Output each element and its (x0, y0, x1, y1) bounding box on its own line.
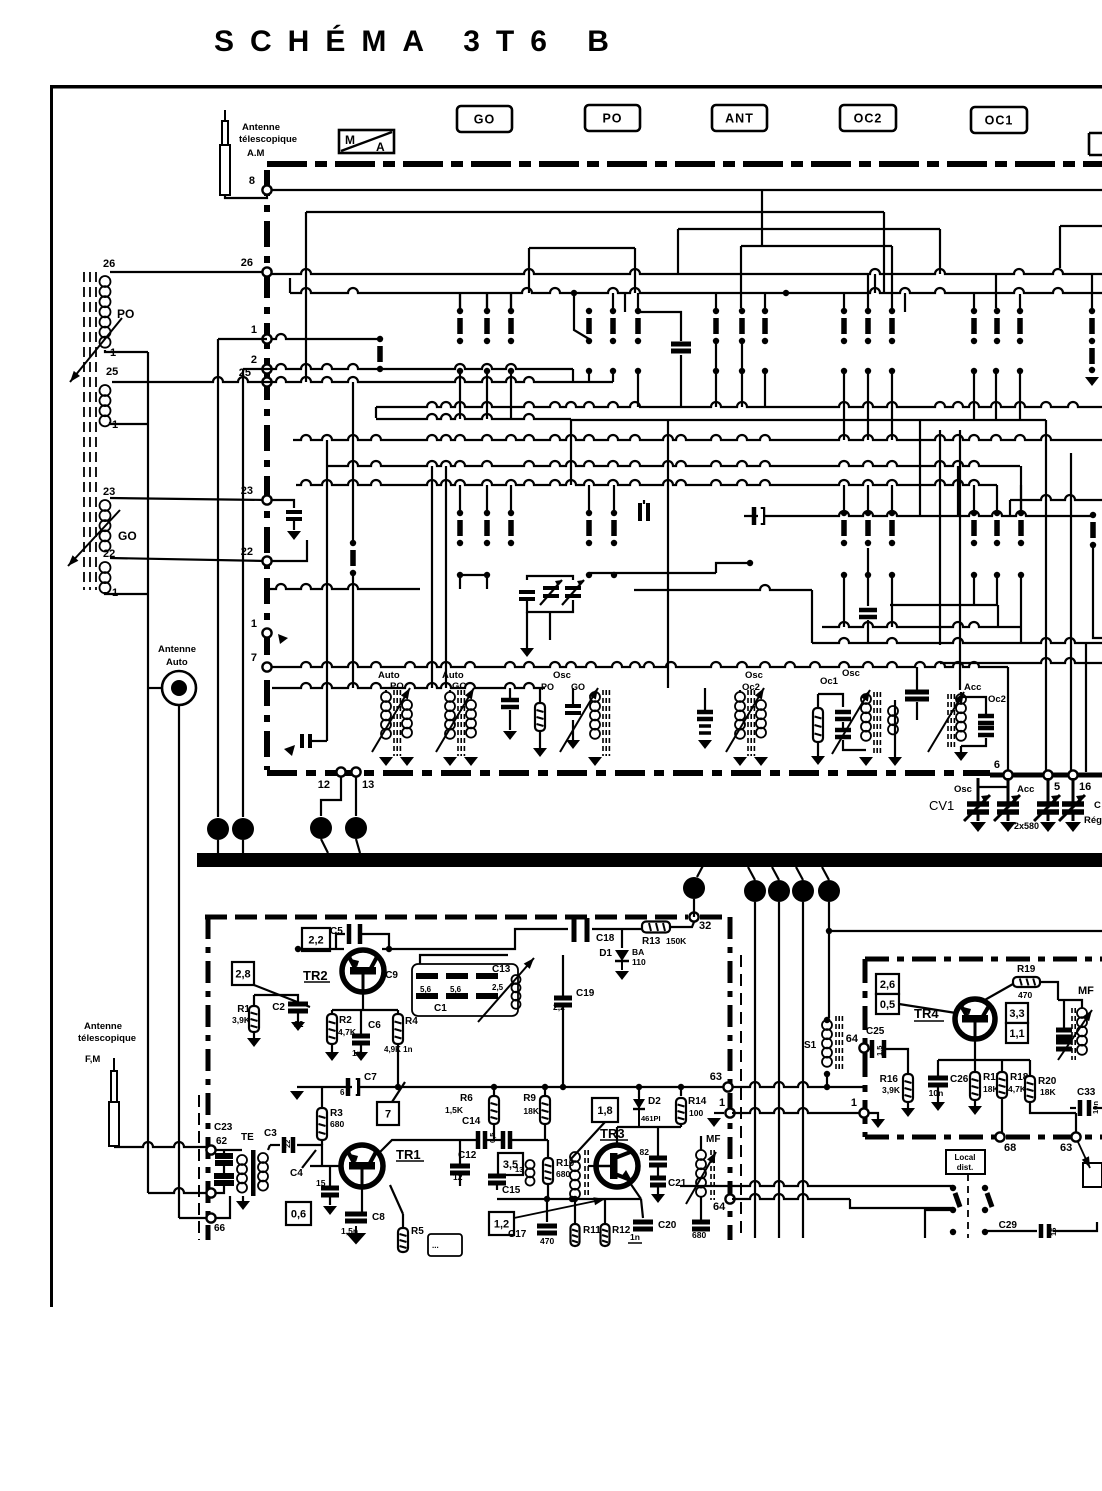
capacitor x868 (859, 610, 877, 617)
svg-text:télescopique: télescopique (239, 134, 297, 145)
wire 25 coil to row (112, 381, 165, 383)
switch contact S-o (994, 308, 1000, 344)
svg-text:Oc1: Oc1 (820, 676, 839, 687)
wire C14 mid (487, 1139, 503, 1141)
wire C2 btm (297, 1011, 299, 1022)
wire box7 pointer (392, 1082, 405, 1102)
inductor FM osc coil (512, 975, 521, 1009)
arrow FM osc coil (478, 958, 534, 1022)
wire below e (693, 908, 695, 917)
wire x353 below contact (352, 576, 354, 688)
wire TE sec to C3 (268, 1145, 270, 1150)
wire osc res bottom (539, 731, 541, 748)
ground arrow left bottom (284, 745, 295, 756)
wire GO top to node 23 (110, 498, 267, 500)
inductor MF fm (696, 1150, 706, 1197)
switch contact S-r extra dash (1089, 348, 1095, 364)
inductor Auto GO coil primary (445, 692, 455, 739)
wire cap705 top (704, 688, 706, 712)
ground Auto PO coil b (400, 757, 414, 766)
resistor R14 (676, 1098, 686, 1124)
node 5 cv (1043, 770, 1052, 779)
wire v x884 212-293 (883, 212, 885, 293)
junction y293 x786 (783, 290, 789, 296)
contact dot L 1232 (950, 1229, 956, 1235)
dot S-r bottom (1089, 367, 1095, 373)
wire PO top to node 26 (110, 271, 267, 273)
svg-text:C33: C33 (1077, 1087, 1096, 1098)
wire row y663 (940, 658, 1102, 663)
frame top border (50, 85, 1102, 89)
connector g (768, 880, 790, 902)
wire cap868 btm stem (867, 620, 869, 643)
ground Osc OC2 coil b (754, 757, 768, 766)
wire node2 row (243, 364, 573, 369)
dash-dot vertical switch border (264, 170, 270, 770)
wire matrix v x306 (305, 293, 307, 382)
wire v x812 590-643 (811, 590, 813, 643)
wire pole2 stem x614 (613, 573, 615, 578)
svg-text:PO: PO (602, 112, 622, 126)
trimmer cap osc 1 (540, 580, 562, 605)
wire T stem x892 (891, 485, 893, 510)
svg-text:i: i (828, 887, 831, 898)
svg-text:18K: 18K (523, 1106, 539, 1116)
inductor Osc OC2 coil secondary (756, 700, 766, 738)
wire C15 link (496, 1183, 498, 1190)
wire cap917 btm (916, 702, 918, 720)
junction R11 (572, 1196, 578, 1202)
capacitor C3 (284, 1137, 293, 1153)
svg-text:Auto: Auto (166, 657, 188, 668)
wire stem 765 (764, 294, 766, 308)
Local dist box (946, 1150, 985, 1174)
resistor R13 (642, 922, 670, 933)
connector a (207, 818, 229, 840)
box value 3,3 (1006, 1003, 1028, 1023)
wire row y212 (306, 211, 884, 213)
capacitor 680 fm (692, 1222, 710, 1229)
wire R3 btm (321, 1140, 323, 1145)
node 12 (336, 767, 345, 776)
wire node1 row right (272, 334, 380, 339)
wire row y605b (890, 604, 998, 606)
wire dot571 down (570, 419, 572, 440)
switch contact S-k (841, 308, 847, 344)
wire pole stem x716 (715, 374, 717, 407)
wire C19 btm (562, 1005, 564, 1087)
wire C25 right (886, 1049, 908, 1074)
wire C29 right (1053, 1222, 1097, 1231)
switch contact S-j (762, 308, 768, 344)
svg-text:a: a (215, 825, 221, 836)
wire v x1060 (1059, 226, 1061, 268)
resistor R11 (571, 1224, 580, 1246)
wire R1C2 top (254, 995, 298, 1004)
wire R10 btm (547, 1184, 549, 1199)
wire C29 row (985, 1230, 1037, 1232)
switch contact S-n (971, 308, 977, 344)
wire conn f down (754, 902, 756, 1238)
wire C5 left (336, 934, 345, 949)
wire conn c stem (321, 839, 328, 853)
wire node7 row (272, 662, 1008, 667)
svg-text:1,5: 1,5 (875, 1046, 884, 1056)
svg-text:A.M: A.M (247, 148, 265, 159)
svg-text:22: 22 (283, 1140, 292, 1148)
wire cap868 top stem (867, 548, 869, 606)
wire stem 613 (612, 293, 614, 308)
switch contact S-e (586, 308, 592, 344)
solid line right of switch bottom (990, 773, 1102, 778)
transistor TR3 (596, 1145, 638, 1187)
inductor Auto GO coil secondary (466, 700, 476, 738)
resistor R12 (601, 1224, 610, 1246)
switch contact T-c (484, 510, 490, 546)
node 16 cv (1068, 770, 1077, 779)
contact dot R 1232 (982, 1229, 988, 1235)
wire row y246 (741, 245, 892, 247)
switch pole dot x511 (508, 368, 514, 374)
wire C12 btm (459, 1173, 461, 1186)
svg-text:1,8: 1,8 (597, 1105, 612, 1117)
svg-text:F,M: F,M (85, 1054, 100, 1065)
svg-text:R16: R16 (880, 1074, 899, 1085)
wire matrix v x958 (957, 466, 959, 516)
svg-text:23: 23 (241, 485, 253, 497)
junction TR2 right (386, 946, 392, 952)
ground osc cap (566, 740, 580, 749)
wire row y420 right (571, 419, 1046, 421)
svg-text:100: 100 (689, 1108, 703, 1118)
wire pole stem x996 (995, 374, 997, 420)
resistor osc OC1 (813, 708, 823, 742)
capacitor C9 a (416, 976, 438, 996)
switch contact S-a (377, 336, 383, 372)
switch pole dot x844 (841, 368, 847, 374)
wire row y274 from node 26 (272, 269, 1102, 274)
wire R3 top (321, 1087, 323, 1108)
capacitor C21 (650, 1178, 666, 1185)
core TE solid (251, 1150, 256, 1196)
switch contact S-b (457, 308, 463, 344)
inductor acc OC2 (956, 694, 966, 741)
switch pole dot2 x892 (889, 572, 895, 578)
wire auto antenna down (178, 705, 180, 1218)
FM block dashed border top (205, 915, 728, 920)
wire pole stem x460 (459, 374, 461, 419)
resistor R3 (317, 1108, 327, 1140)
ground acc OC2 (954, 752, 968, 761)
switch contact S-i (739, 308, 745, 344)
module box R5 (428, 1234, 462, 1256)
svg-text:PO: PO (541, 682, 554, 692)
switch contact S-l (865, 308, 871, 344)
wire v x940 229-274 (939, 229, 941, 274)
svg-text:8: 8 (249, 175, 255, 187)
underline TR1 (396, 1160, 424, 1162)
switch contact T-d (508, 510, 514, 546)
svg-text:C20: C20 (658, 1220, 677, 1231)
svg-text:470: 470 (1018, 990, 1032, 1000)
capacitor matrix mid (671, 344, 691, 351)
capacitor osc OC1 b (835, 730, 851, 737)
wire C9 top link (420, 955, 508, 964)
node 64 fm (725, 1194, 734, 1203)
svg-text:Osc: Osc (745, 670, 763, 681)
arrow osc POGO (560, 688, 598, 752)
junction R14 top (678, 1084, 684, 1090)
wire emitter row tr4 (938, 1059, 1030, 1061)
wire v x1021 627-643 (1020, 627, 1022, 643)
svg-text:7: 7 (385, 1108, 391, 1120)
switch contact T-i (889, 510, 895, 546)
wire 62 right (216, 1149, 224, 1151)
wire stem 1020 (1019, 294, 1021, 308)
connector i (818, 880, 840, 902)
wire conn a stem (217, 840, 219, 853)
wire R18 btm (1001, 1098, 1003, 1132)
svg-text:Osc: Osc (553, 670, 571, 681)
ground Auto PO coil a (379, 757, 393, 766)
wire row y1087 (297, 1086, 728, 1088)
svg-text:R12: R12 (612, 1225, 631, 1236)
connector c (310, 817, 332, 839)
svg-text:5,6: 5,6 (420, 985, 432, 994)
wire R16 btm (907, 1102, 909, 1108)
ground R2 (325, 1052, 339, 1061)
wire R4 stem (397, 1010, 399, 1014)
wire pole stem x511 (510, 374, 512, 419)
arrow acc OC2 (928, 692, 964, 752)
wire TR1 base (310, 1165, 341, 1167)
inductor Osc OC2 coil primary (735, 692, 745, 739)
node 66 (206, 1213, 215, 1222)
wire row y590b (634, 585, 812, 590)
wire pole2 stem x974 (973, 578, 975, 605)
capacitor acc OC2 a (978, 716, 994, 723)
core MF fm (711, 1150, 714, 1200)
wire C20 stem (641, 1199, 643, 1218)
band box ANT (712, 105, 767, 131)
capacitor osc OC1 a (835, 712, 851, 719)
wire C4 pointer (302, 1150, 316, 1168)
switch pole dot x460 (457, 368, 463, 374)
wire TR1 collector up (379, 1140, 440, 1153)
wire cap-lb (312, 740, 327, 742)
wire C21 btm (657, 1185, 659, 1194)
capacitor C2 (288, 1004, 308, 1011)
wire matrix v x625 (624, 293, 626, 312)
switch pole dot x765 (762, 368, 768, 374)
capacitor C6 (352, 1036, 370, 1043)
svg-text:2,6: 2,6 (880, 979, 895, 991)
wire R10 top (547, 1140, 549, 1158)
core Auto PO coil (394, 690, 400, 756)
wire row y500 right (1010, 495, 1102, 500)
switch contact T-g (841, 510, 847, 546)
box value 1,2 (489, 1212, 514, 1235)
svg-text:...: ... (432, 1241, 439, 1250)
wire cap917 top (916, 667, 918, 692)
wire v x1010 500-516 (1009, 500, 1011, 516)
svg-text:CV1: CV1 (929, 798, 954, 813)
wire TR4 to R19 (983, 984, 1013, 1001)
Local dist dashed stem (967, 1174, 969, 1238)
wire v x998 605-627 (997, 605, 999, 627)
antenna telescopique A.M symbol (220, 110, 230, 195)
svg-text:R11: R11 (583, 1225, 601, 1236)
arrow MF tr4 (1058, 1010, 1092, 1060)
svg-text:1: 1 (251, 618, 257, 630)
switch pole dot2 x997 (994, 572, 1000, 578)
switch contact S-p (1017, 308, 1023, 344)
switch pole dot x742 (739, 368, 745, 374)
box value 1,8 (592, 1098, 618, 1122)
diode D1 (615, 950, 629, 970)
wire v x573 369-382 (572, 369, 574, 382)
svg-text:C13: C13 (492, 964, 511, 975)
wire C33 to edge (1093, 1107, 1102, 1109)
svg-text:6: 6 (340, 1088, 345, 1097)
svg-text:26: 26 (103, 258, 115, 270)
svg-text:R10: R10 (556, 1158, 575, 1169)
svg-text:dist.: dist. (957, 1163, 973, 1172)
node 63 tr4 (1071, 1132, 1080, 1141)
svg-text:6: 6 (994, 759, 1000, 771)
wire Tm tail (1093, 548, 1102, 638)
wire stem 487 (486, 294, 488, 308)
wire pole stem x892 (891, 374, 893, 440)
contact dot R 1210 (982, 1207, 988, 1213)
svg-text:2x580: 2x580 (1014, 821, 1039, 831)
ground C6 (354, 1052, 368, 1061)
svg-text:Auto: Auto (442, 670, 464, 681)
wire S1 btm (826, 1074, 828, 1087)
switch box right edge (1083, 1163, 1102, 1187)
switch contact S-d (508, 308, 514, 344)
node 64 tr4 (859, 1043, 868, 1052)
resistor R19 (1013, 977, 1040, 987)
wire TR1 emitter (361, 1187, 363, 1212)
wire pole2 stem x460 (459, 578, 461, 589)
wire row y190 from node 8 (272, 189, 1102, 191)
wire row y627b (822, 622, 1021, 627)
capacitor matrix x643 (640, 503, 648, 521)
wire C18 to R13 (592, 928, 642, 930)
wire PO bottom tap (105, 350, 148, 352)
ground Auto GO coil a (443, 757, 457, 766)
junction y1087 x545 (542, 1084, 548, 1090)
local dist contact bars (955, 1193, 992, 1207)
wire matrix v x432 (431, 466, 433, 688)
svg-text:2,8: 2,8 (235, 968, 250, 980)
capacitor C18 (574, 918, 587, 942)
resistor R17 (970, 1072, 980, 1100)
wire MF btm (700, 1196, 702, 1222)
wire Osc OC2 coil legs (739, 690, 741, 692)
inductor TE secondary (258, 1153, 268, 1191)
inductor GO coil lower (100, 562, 111, 593)
svg-text:Antenne: Antenne (242, 122, 280, 133)
wire conn e down (693, 899, 695, 908)
core acc OC2 (948, 694, 954, 748)
svg-text:13: 13 (515, 1165, 523, 1174)
svg-text:32: 32 (699, 920, 711, 932)
node 62 (206, 1145, 215, 1154)
wire osc cap bottom (572, 720, 574, 740)
wire v x741 246-308 (740, 246, 742, 308)
svg-text:TR1: TR1 (396, 1147, 421, 1162)
wire node12 down (321, 777, 341, 816)
resistor R18 (997, 1072, 1007, 1098)
svg-text:R5: R5 (411, 1226, 424, 1237)
wire osc gnd stem (526, 612, 528, 648)
white gap C7 (352, 1080, 357, 1094)
switch contact S-c (484, 308, 490, 344)
wire TR3 emitter (628, 1180, 641, 1199)
underline TR4 (914, 1020, 944, 1022)
capacitor acc OC2 b (978, 728, 994, 735)
wire R5 diag (390, 1185, 403, 1214)
wire row y440 (293, 435, 1102, 440)
node 22 on band bus (262, 556, 271, 565)
core Auto GO coil (458, 690, 464, 756)
wire v x1021 466-510 (1020, 466, 1022, 510)
svg-text:R3: R3 (330, 1108, 343, 1119)
wire row y1199 c (850, 1199, 953, 1208)
capacitor node 23 (286, 512, 302, 519)
FM block dashed border right (728, 917, 733, 1240)
switch pole dot x716 (713, 368, 719, 374)
switch pole dot2 x868 (865, 572, 871, 578)
underline TR3 (600, 1139, 628, 1141)
switch pole dot2 x614 (611, 572, 617, 578)
wire row y1113 b (732, 1108, 860, 1113)
svg-text:C26: C26 (950, 1074, 969, 1085)
wire contact stem x460 (459, 293, 461, 308)
variable capacitor CV1 osc (964, 778, 990, 832)
svg-text:23: 23 (103, 486, 115, 498)
switch contact T-h (865, 510, 871, 546)
wire v x940 430-645 (939, 430, 941, 645)
wire node1b row (272, 683, 545, 688)
wire 589 up (574, 293, 589, 339)
svg-text:R6: R6 (460, 1093, 473, 1104)
wire row y293 (290, 288, 1102, 293)
svg-text:C29: C29 (999, 1220, 1018, 1231)
wire conn d stem (356, 839, 360, 853)
wire R1 btm (253, 1032, 255, 1038)
wire pole stem x844 (843, 374, 845, 440)
core osc OC1 (874, 692, 880, 756)
wire osc res top (539, 688, 541, 703)
capacitor x917 (905, 692, 929, 699)
capacitor left bottom (302, 734, 310, 748)
node 1 fm (725, 1108, 734, 1117)
wire row y1199 b (732, 1194, 850, 1199)
wire box18 pointer (570, 1122, 605, 1160)
ground C7 (290, 1091, 304, 1100)
svg-text:150K: 150K (666, 936, 687, 946)
dash-dot band select line top (267, 161, 1102, 167)
wire T stem x460 (459, 485, 461, 510)
white gap cap760 (758, 509, 763, 523)
wire osc cap top (572, 688, 574, 706)
wire C12 stem (459, 1140, 461, 1166)
switch pole dot x868 (865, 368, 871, 374)
wire D2 top (638, 1087, 640, 1098)
